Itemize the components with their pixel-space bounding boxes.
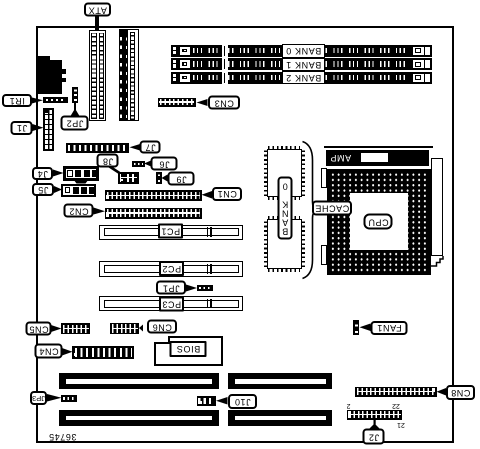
label IR1	[2, 94, 32, 107]
ISA slot row1 left	[59, 373, 219, 389]
wire J8 pointer	[108, 166, 120, 174]
wire CN2 pointer	[94, 208, 106, 215]
wire J5 pointer	[54, 186, 62, 193]
wire IR1 pointer	[32, 98, 43, 104]
connector CN6	[110, 323, 139, 335]
label J2	[363, 429, 385, 445]
label J7	[140, 141, 161, 154]
slot PC2	[99, 261, 243, 277]
label J6	[151, 157, 178, 171]
wire ATX pointer bar	[95, 15, 99, 31]
socket lever top	[321, 168, 327, 188]
header J8	[118, 172, 139, 184]
header J10	[197, 396, 216, 406]
label CN1	[212, 187, 242, 201]
BIOS chip label	[170, 341, 207, 357]
memory slot BANK1 row	[171, 58, 433, 70]
wire CN4 pointer	[62, 348, 73, 356]
connector CN3	[158, 98, 196, 107]
keyboard connector KB1	[38, 56, 50, 62]
label PC3	[159, 297, 184, 312]
ISA slot row1 right	[228, 373, 332, 389]
label JP3	[30, 391, 47, 405]
jumper JP3	[61, 395, 77, 402]
label JP2	[61, 116, 89, 131]
connector J7	[66, 143, 129, 154]
pin digit 2	[345, 402, 352, 409]
label J8	[97, 154, 119, 168]
ISA slot row2 right	[228, 410, 332, 426]
label J4	[32, 167, 53, 180]
label CN4	[35, 344, 63, 359]
connector AT power	[119, 29, 139, 121]
label CN6	[147, 320, 177, 334]
wire CN6 pointer	[139, 325, 143, 332]
header J2	[347, 410, 403, 420]
connector CN4	[72, 346, 134, 359]
fan header FAN1	[353, 320, 359, 335]
header J1	[43, 108, 54, 151]
ISA slot row2 left	[59, 410, 219, 426]
jumper J9	[156, 172, 162, 184]
wire J2 pointer	[374, 420, 376, 425]
cache chip U2	[264, 150, 267, 196]
label ATX	[84, 3, 111, 17]
pin digit 22	[391, 402, 401, 409]
connector IR1	[43, 97, 69, 104]
wire J4 pointer	[53, 170, 64, 177]
wire J6 pointer	[144, 161, 151, 167]
wire JP1 pointer	[186, 285, 197, 292]
regulator side bar	[431, 158, 443, 257]
label BANK 0 / BANK 1 / BANK 2 stack	[282, 44, 325, 84]
slot PC1	[99, 225, 243, 240]
connector ATX power	[89, 30, 106, 122]
label CACHE	[312, 201, 352, 216]
connector J6	[132, 161, 145, 167]
wire CN8 pointer	[437, 388, 447, 396]
AMP regulator bar	[326, 150, 430, 166]
CPU socket U1	[327, 169, 431, 275]
label J10	[228, 394, 257, 409]
wire CN1 pointer	[202, 191, 213, 199]
slot PC3	[99, 296, 243, 311]
connector CN1	[105, 190, 202, 201]
label CN8	[446, 385, 475, 400]
wire CN3 pointer	[197, 99, 208, 106]
label PC2	[159, 261, 184, 276]
label CN3	[208, 96, 240, 110]
regulator bar stairs	[431, 256, 443, 266]
AMP regulator top line	[324, 146, 433, 148]
connector J4	[63, 166, 99, 181]
label JP1	[156, 281, 186, 295]
jumper JP2	[72, 87, 78, 103]
wire J9 pointer	[162, 175, 168, 182]
wire CN5 pointer	[51, 325, 62, 332]
label CN2	[64, 204, 94, 218]
pin digit 21	[396, 421, 406, 428]
connector CN8	[355, 387, 437, 397]
wire JP3 pointer	[47, 394, 62, 402]
memory slot BANK0 row	[171, 45, 433, 57]
wire J7 pointer	[130, 144, 141, 151]
BIOS socket outline	[154, 342, 223, 367]
wire FAN1 pointer	[360, 324, 371, 332]
label CPU	[364, 214, 393, 230]
connector CN5	[61, 323, 90, 334]
label FAN1	[371, 321, 408, 335]
wire J1 pointer	[33, 124, 44, 131]
label PC1	[158, 224, 183, 239]
brace cache group	[303, 142, 317, 279]
cache chip U3	[264, 220, 267, 267]
label J5	[32, 183, 54, 196]
label CN5	[26, 322, 52, 336]
text 36745	[46, 432, 79, 441]
wire J10 pointer	[216, 397, 228, 405]
label J9	[168, 172, 195, 186]
connector J5	[61, 184, 96, 197]
jumper JP1	[197, 285, 213, 291]
wire JP2 pointer	[74, 103, 76, 110]
socket lever bottom	[321, 245, 327, 265]
memory slot BANK2 row	[171, 72, 433, 84]
connector CN2	[105, 208, 202, 219]
label J1	[11, 121, 33, 135]
label BANK 0 vertical	[278, 177, 293, 240]
